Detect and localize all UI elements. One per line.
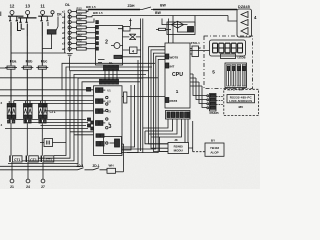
bus vertical 2 [122,85,135,147]
RS485 module [168,138,189,154]
wire (CT primaries down) [11,123,42,156]
svg-text:BW: BW [160,4,166,8]
terminal N8 [62,47,77,51]
terminal N4 [62,26,77,30]
svg-text:ZDH: ZDH [128,4,136,8]
resistor R3 [77,17,95,23]
terminal N2 [62,15,77,19]
resistor R21 [156,28,171,30]
terminal Ia [10,162,14,189]
wire (CT secondary top lines) [14,101,94,111]
wire (current lines to box3) [5,120,88,129]
header J2 (box2 to box3 link, top row) [104,61,119,70]
wire (left edge stub) [0,67,7,69]
svg-text:BW 1.5: BW 1.5 [86,5,96,9]
wire (cpu bus corner 5) [127,59,165,152]
wire (fan corner 5) [8,78,143,164]
terminal Ic [41,162,45,189]
pin circle 4 [106,118,108,120]
wire (long common rail) [0,77,158,79]
pulse output box [104,137,122,154]
switch contact b2 [25,18,27,36]
panel boundary (dash-dot) [204,36,253,89]
fuse FUc [36,60,48,70]
wire (cpu top feeds) [169,16,174,44]
wire (left edge rails) [0,90,94,96]
varistor WK [42,30,56,49]
wire [64,13,66,53]
resistor R15 (internal) [122,92,165,103]
connector J4 (under CPU) [166,111,191,120]
wire (cpu right drops) [190,74,208,108]
svg-text:YB418: YB418 [210,146,220,150]
svg-text:MODU: MODU [174,148,183,152]
svg-text:DL: DL [65,3,71,7]
node labels (left margin) [1,101,3,127]
comm header [207,94,216,112]
wire (cpu bus corner 3) [153,53,168,151]
regulator U2 [188,16,196,33]
svg-text:JK: JK [174,138,178,142]
wire (arrows to external box) [216,97,223,105]
power line L2 [92,11,237,21]
capacitor box K1 [40,139,66,147]
svg-text:ZD-1: ZD-1 [92,164,99,168]
transistor Q3 [110,139,120,147]
key block 5 [212,63,246,88]
external unit (dashed) [224,89,259,115]
shunt CT1 b [26,156,38,163]
crystal XT [190,41,200,57]
svg-text:BW 1.5: BW 1.5 [93,11,103,15]
svg-text:BY: BY [211,139,215,143]
resistor R12 (sample ch2) [96,99,112,104]
pin circle 5 [106,127,108,129]
svg-text:1: 1 [176,89,179,94]
bridge rectifier [162,19,188,29]
resistor R4 [77,22,98,28]
wire (column stem) [69,13,71,52]
switch contact a2 [16,16,21,30]
pin pads (current inputs) [87,88,94,131]
svg-text:FUb: FUb [26,60,33,64]
wire (box2 top tick) [129,19,131,27]
wire (bus corners to RS485) [145,131,168,152]
svg-text:CT1: CT1 [14,158,21,162]
switch contact DK [55,17,58,35]
key SW1 [227,65,231,87]
pin pads (box2 inputs) [96,21,99,50]
header J3 (box3 top row) [100,79,119,84]
svg-text:FUc: FUc [41,60,48,64]
terminal N5 [62,31,77,35]
wire (connector drops to bus) [143,119,182,137]
resistor R20 [107,164,124,174]
resistor R13 (sample ch3) [96,109,112,114]
key SW2 [232,65,236,87]
switch contact b1 [19,18,24,29]
svg-text:24: 24 [26,185,30,189]
optocoupler pads [96,134,104,146]
remote unit box [205,143,224,156]
pin pad INT [165,63,174,68]
wire (bridge lower) [178,28,188,32]
CPU block [165,43,190,108]
block 3 (measurement ASIC) [94,86,123,156]
terminal Uc [41,11,45,15]
wire (dashed link to remote box) [193,151,205,153]
ground [67,54,73,57]
output connector [237,9,252,37]
wire (fan corner 1) [62,63,155,90]
svg-text:INT: INT [170,64,175,68]
wire (fuses down to CTs) [11,69,42,103]
wire [38,15,47,17]
bus pair (shield) [141,19,143,154]
svg-text:5: 5 [212,70,215,75]
bus vertical 3 [122,60,138,153]
pin pad RST [165,98,177,103]
display bezel [210,40,246,56]
terminal Ub [26,11,30,15]
terminal Ib [26,162,30,189]
resistor R7 [77,38,98,44]
fuse FUb [21,60,33,70]
diode D1 [111,43,123,49]
wire [47,14,52,16]
shunt CT1 c [41,156,54,163]
wire (connector to RS485 box) [185,119,188,143]
transistor Q1 [118,27,141,32]
svg-text:21: 21 [10,185,14,189]
svg-text:2: 2 [105,40,108,46]
resistor R5 [77,28,98,34]
terminal Ua [10,11,14,15]
svg-text:27: 27 [41,185,45,189]
external unit text box [227,95,255,104]
terminal N3 [62,20,77,24]
wire (box2 bottom stubs) [98,60,105,63]
transformer TAa [7,101,16,124]
shunt CT1 a [10,156,22,163]
transformer TAb [24,101,33,124]
pin circle 2 [106,103,108,105]
transformer TAc [39,101,56,124]
wire (pulse out) [122,144,124,172]
svg-text:WDT8: WDT8 [170,56,179,60]
svg-text:CPU: CPU [172,72,183,78]
switch contact a1 [9,16,11,36]
wire (fan corner 4) [22,74,146,160]
wire (ground stub) [69,58,71,71]
pin circle 1 [106,96,108,98]
resistor R11 (sample ch1) [96,88,112,93]
resistor R8 [77,44,98,50]
svg-text:LINK·MODBUS: LINK·MODBUS [229,99,252,103]
bus vertical 1 [122,85,131,150]
wire (phase verticals down to fuses) [11,36,42,66]
pin pad WDT [165,54,178,60]
wire (cpu to display) [190,50,210,52]
svg-text:ALOP: ALOP [210,150,218,154]
wire [18,15,36,18]
svg-text:RST8: RST8 [170,99,178,103]
svg-text:11: 11 [40,4,45,9]
svg-text:XTAL1: XTAL1 [191,41,201,45]
switch contact c1 [40,16,42,36]
resistor R14 (sample ch4) [96,121,111,126]
svg-text:WH: WH [109,164,114,168]
7-segment digits 88888 [213,43,243,53]
svg-text:485: 485 [238,105,243,109]
left margin tick [0,12,2,17]
svg-text:FUa: FUa [10,60,17,64]
svg-text:DZ845: DZ845 [238,5,250,9]
resistor R8 [114,55,141,58]
wire (link verticals) [105,70,117,79]
wire (fan corner 3) [39,71,150,159]
svg-text:U1: U1 [107,89,111,93]
wire [8,15,24,17]
wire (cpu bus corner 2) [151,50,168,148]
terminal N6 [62,36,77,40]
wire (RS485 right) [189,121,193,152]
power line L1 [88,4,237,10]
svg-text:BW: BW [155,11,161,15]
wire (horizontal tie y53) [11,52,66,54]
wire (aux branches) [70,132,94,135]
wire (cpu bus corner 1) [149,47,168,144]
resistor R1 [77,7,89,13]
pin circle 3 [106,109,108,111]
svg-text:3: 3 [109,124,112,130]
wire (fan corner 2) [54,67,152,156]
wire (fan corner 6) [0,82,140,167]
svg-text:LED8: LED8 [238,55,246,59]
svg-text:RS485: RS485 [210,111,220,115]
svg-text:13: 13 [25,4,30,9]
block 2 (input signal conditioner) [96,26,123,66]
display connector tab [221,54,246,59]
terminal aux [51,11,54,14]
terminal N7 [62,42,77,46]
key SW4 [242,65,246,87]
wire (bottom rail with test links) [0,164,107,170]
component X4 [123,47,141,54]
terminal N1 [62,10,77,14]
svg-text:ZD-1: ZD-1 [76,164,83,168]
transistor Q2 (X glyph) [122,34,140,39]
wire (cpu bus corner 4) [122,56,165,149]
pin circle 6 [106,142,108,144]
svg-text:4: 4 [132,49,134,53]
fuse FUa [5,60,17,70]
key SW3 [237,65,241,87]
resistor R2 [77,12,93,18]
power supply box [167,22,195,35]
svg-text:12: 12 [10,4,15,9]
resistor R6 [77,33,98,39]
switch contact c2 [46,16,48,26]
